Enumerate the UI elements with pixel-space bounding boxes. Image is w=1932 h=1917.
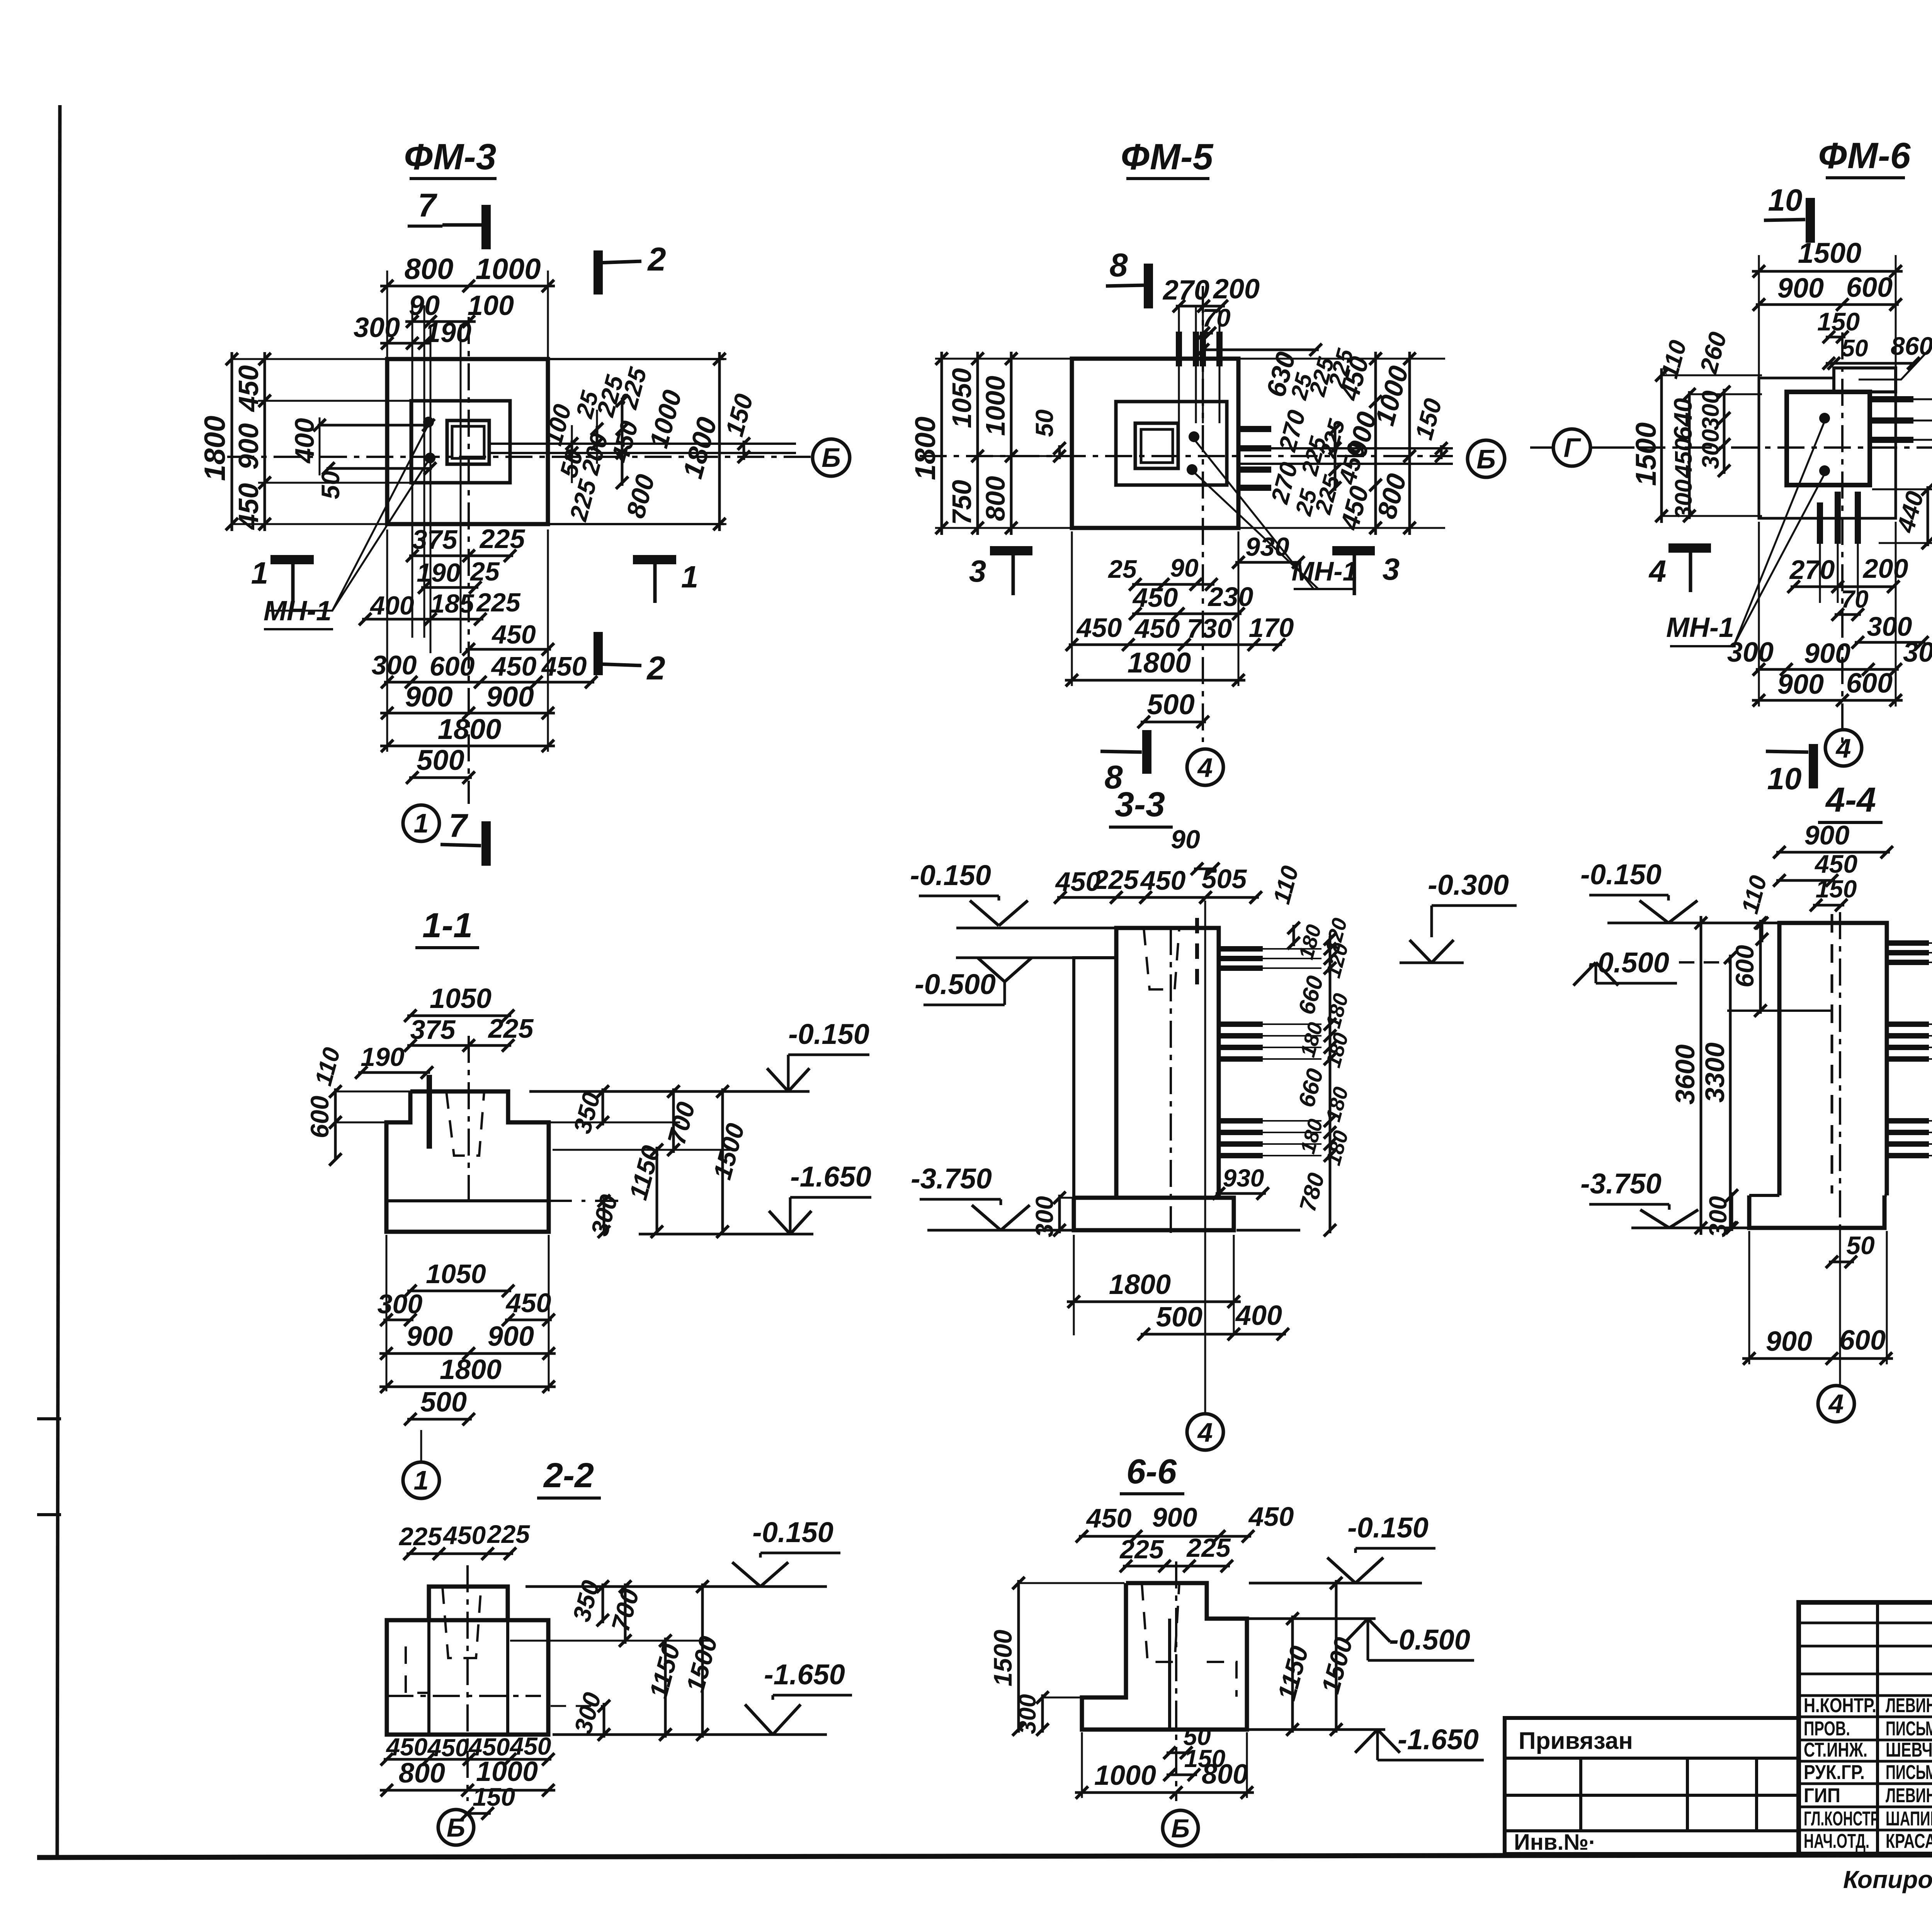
svg-text:225: 225	[1093, 865, 1139, 895]
svg-text:300: 300	[372, 650, 417, 680]
svg-text:РУК.ГР.: РУК.ГР.	[1804, 1761, 1865, 1784]
svg-text:1500: 1500	[1630, 422, 1662, 486]
section mark 3 right of FM-5	[1332, 546, 1375, 555]
svg-text:4: 4	[1648, 554, 1667, 588]
FM-5 outer footing square	[1072, 359, 1238, 528]
svg-text:300: 300	[1727, 637, 1774, 668]
svg-text:6-6: 6-6	[1126, 1452, 1177, 1491]
svg-text:1: 1	[251, 556, 269, 590]
svg-text:225: 225	[479, 524, 526, 554]
svg-text:Привязан: Привязан	[1519, 1728, 1633, 1754]
svg-text:3300: 3300	[1700, 1042, 1730, 1103]
svg-text:225: 225	[1119, 1535, 1164, 1564]
svg-text:-3.750: -3.750	[911, 1163, 992, 1195]
svg-text:900: 900	[233, 423, 264, 470]
section 2-2 pedestal profile	[429, 1587, 508, 1620]
FM-6 anchor dots	[1819, 413, 1830, 424]
svg-text:СТ.ИНЖ.: СТ.ИНЖ.	[1804, 1739, 1867, 1761]
svg-text:3: 3	[1383, 552, 1400, 586]
FM-5 anchor rebar lines top	[1178, 307, 1180, 423]
svg-text:1050: 1050	[947, 368, 977, 428]
section 3-3 footing	[1074, 1198, 1234, 1230]
svg-text:ФМ-3: ФМ-3	[404, 136, 497, 177]
svg-text:225: 225	[488, 1013, 534, 1044]
frame fold tick left lower	[37, 1513, 61, 1516]
section 1-1 anchor dashed lines	[446, 1091, 484, 1156]
main title block outer	[1799, 1602, 1932, 1854]
svg-text:1: 1	[414, 1465, 429, 1495]
svg-text:600: 600	[1839, 1325, 1886, 1356]
svg-text:400: 400	[369, 591, 414, 620]
svg-text:190: 190	[417, 558, 461, 587]
section 3-3 rebar hook groups right	[1219, 946, 1263, 952]
leader MN-1 of FM-6	[1734, 421, 1825, 645]
FM-6 foundation body bold square	[1787, 392, 1870, 485]
axis circle 4 below FM-6	[1825, 730, 1862, 766]
sheet frame bottom border line	[37, 1854, 1932, 1857]
svg-text:4: 4	[1197, 1417, 1213, 1447]
FM-3 right top extension lines	[548, 358, 724, 360]
svg-text:ФМ-6: ФМ-6	[1818, 135, 1911, 176]
svg-text:-0.150: -0.150	[910, 859, 991, 891]
FM-5 horizontal axis centerline	[920, 455, 1453, 457]
section 6-6 centerline	[1175, 1561, 1177, 1801]
svg-text:ГИП: ГИП	[1804, 1784, 1840, 1807]
section mark 1 lower-right of FM-3	[633, 555, 676, 564]
svg-text:800: 800	[405, 253, 454, 286]
svg-text:300: 300	[1903, 637, 1932, 668]
svg-text:Б: Б	[1171, 1814, 1190, 1843]
FM-3 footing step rectangle	[411, 401, 510, 483]
svg-text:230: 230	[1207, 582, 1253, 612]
svg-text:1-1: 1-1	[422, 906, 473, 945]
FM-3 foundation beam edge lines to right	[489, 443, 796, 445]
svg-text:3: 3	[969, 554, 986, 588]
section 3-3 right dim chain small 180s 660s	[1329, 936, 1332, 1233]
section mark 2 lower right of FM-3	[594, 632, 603, 675]
section 2-2 dashdot horizontal	[386, 1695, 541, 1697]
svg-text:4: 4	[1835, 733, 1851, 763]
svg-text:МН-1: МН-1	[1666, 612, 1734, 643]
svg-text:450: 450	[442, 1521, 486, 1549]
axis circle 4 below FM-5	[1187, 749, 1223, 785]
axis circle 4 below 4-4	[1818, 1386, 1854, 1422]
svg-text:4: 4	[1828, 1389, 1844, 1419]
svg-text:900: 900	[1804, 638, 1850, 669]
svg-text:500: 500	[420, 1387, 467, 1418]
section 1-1 level line -0.150 extension	[529, 1090, 810, 1093]
FM-5 footing step rectangle	[1116, 402, 1227, 485]
svg-text:-0.150: -0.150	[1580, 858, 1662, 890]
svg-text:2-2: 2-2	[543, 1456, 594, 1495]
svg-text:1800: 1800	[1128, 647, 1191, 679]
svg-text:25: 25	[1107, 555, 1137, 583]
privyazan block rows	[1505, 1757, 1799, 1760]
section 1-1 slab dashdot right	[549, 1200, 626, 1202]
svg-text:270: 270	[1789, 555, 1835, 585]
svg-text:1800: 1800	[199, 415, 231, 481]
FM-3 anchor bolt dots	[423, 417, 434, 427]
svg-text:50: 50	[316, 471, 345, 499]
svg-text:900: 900	[486, 681, 534, 713]
FM-3 horizontal axis centerline B	[227, 456, 811, 458]
svg-text:150: 150	[473, 1783, 515, 1811]
FM-5 column inner line	[1141, 429, 1173, 463]
svg-text:450: 450	[1248, 1502, 1294, 1532]
svg-text:400: 400	[289, 418, 320, 464]
section 3-3 axis line to circle 4	[1204, 901, 1206, 1415]
FM-6 rebar hooks right	[1870, 396, 1913, 402]
svg-text:-0.500: -0.500	[1389, 1624, 1470, 1656]
svg-text:1: 1	[681, 560, 699, 594]
svg-text:200: 200	[1862, 553, 1908, 584]
svg-text:МН-1: МН-1	[264, 596, 332, 627]
FM-5 foundation beam edges right	[1238, 447, 1453, 449]
svg-text:450: 450	[386, 1733, 428, 1761]
svg-text:600: 600	[1846, 668, 1893, 699]
svg-text:1500: 1500	[1798, 237, 1862, 269]
svg-text:-1.650: -1.650	[1398, 1723, 1479, 1755]
svg-text:900: 900	[406, 1321, 453, 1352]
FM-3 vertical centerline	[468, 317, 470, 804]
FM-3 column outline	[447, 421, 489, 464]
svg-text:300: 300	[1670, 479, 1697, 519]
svg-text:50: 50	[1846, 1231, 1875, 1260]
svg-text:800: 800	[399, 1758, 445, 1789]
section 2-2 anchor dashed	[442, 1587, 481, 1658]
FM-3 outer footing square 1800x1800	[387, 359, 548, 524]
privyazan block outer	[1505, 1718, 1799, 1854]
svg-text:900: 900	[1152, 1502, 1197, 1532]
svg-text:225: 225	[398, 1522, 442, 1551]
section 4-4 centerline	[1839, 912, 1841, 1229]
axis circle 1 below FM-3	[403, 805, 439, 841]
svg-text:-3.750: -3.750	[1580, 1168, 1662, 1200]
svg-text:450: 450	[1086, 1503, 1132, 1533]
svg-text:900: 900	[405, 681, 452, 713]
section 4-4 wall profile	[1779, 923, 1887, 1195]
FM-3 column inner line	[452, 426, 484, 458]
svg-text:Н.КОНТР.: Н.КОНТР.	[1804, 1694, 1876, 1717]
section 3-3 anchor dashed	[1144, 928, 1179, 989]
svg-text:7: 7	[418, 187, 437, 224]
section 1-1 anchor bolt	[427, 1075, 432, 1149]
svg-text:505: 505	[1202, 864, 1247, 894]
svg-text:1800: 1800	[438, 713, 502, 745]
svg-text:50: 50	[1031, 409, 1058, 437]
section 3-3 vertical centerline	[1170, 928, 1172, 1233]
svg-text:-1.650: -1.650	[790, 1161, 871, 1193]
svg-text:ФМ-5: ФМ-5	[1121, 136, 1214, 177]
svg-text:1500: 1500	[988, 1629, 1017, 1686]
svg-text:450: 450	[1814, 850, 1857, 878]
svg-text:ЛЕВИНА: ЛЕВИНА	[1886, 1694, 1932, 1717]
svg-text:Г: Г	[1564, 432, 1582, 463]
section 4-4 anchor dashed vertical	[1831, 914, 1833, 1193]
axis circle B below 2-2	[438, 1810, 474, 1845]
svg-text:225: 225	[476, 588, 521, 617]
section 3-3 left ledge	[1074, 958, 1116, 1198]
FM-3 anchor bolt vertical lines	[412, 305, 413, 638]
svg-text:-0.500: -0.500	[915, 968, 996, 1000]
sheet frame left border line	[57, 105, 60, 1855]
svg-text:ШЕВЧЕНКО: ШЕВЧЕНКО	[1886, 1739, 1932, 1761]
svg-text:1000: 1000	[475, 253, 541, 286]
svg-text:500: 500	[1147, 688, 1194, 720]
svg-text:450: 450	[1670, 438, 1697, 478]
svg-text:-1.650: -1.650	[764, 1658, 845, 1691]
FM-6 vertical centerline	[1841, 332, 1844, 746]
section mark 1 lower-left of FM-3	[270, 555, 314, 564]
svg-text:-0.500: -0.500	[1588, 947, 1669, 979]
svg-text:500: 500	[1156, 1302, 1202, 1333]
FM-6 horizontal axis centerline	[1592, 446, 1932, 449]
FM-5 vertical axis centerline	[1202, 286, 1204, 742]
section 1-1 vertical centerline	[468, 1036, 470, 1206]
svg-text:Б: Б	[447, 1813, 465, 1842]
FM-5 rebar hooks right	[1238, 426, 1271, 432]
FM-5 column outline	[1135, 423, 1178, 468]
svg-text:1000: 1000	[980, 376, 1010, 436]
svg-text:ПРОВ.: ПРОВ.	[1804, 1718, 1850, 1740]
svg-text:640: 640	[1668, 398, 1697, 441]
svg-text:600: 600	[1730, 945, 1759, 987]
svg-text:-0.150: -0.150	[788, 1018, 869, 1050]
section 4-4 rebar hooks	[1887, 940, 1929, 946]
section 4-4 footing	[1749, 1195, 1884, 1228]
svg-text:90: 90	[1171, 825, 1200, 854]
svg-text:300: 300	[1014, 1694, 1041, 1734]
svg-text:1800: 1800	[909, 417, 941, 480]
section 3-3 wall profile	[1116, 928, 1219, 1198]
svg-text:200: 200	[1213, 274, 1260, 305]
svg-text:1000: 1000	[1094, 1760, 1156, 1791]
svg-text:860: 860	[1891, 332, 1932, 360]
section 1-1 slab top line	[386, 1199, 549, 1202]
svg-text:1: 1	[414, 808, 429, 838]
signature table columns	[1876, 1602, 1879, 1854]
svg-text:225: 225	[486, 1520, 530, 1548]
svg-text:450: 450	[491, 620, 536, 649]
section 6-6 inner vertical line	[1168, 1619, 1171, 1730]
leader line MN-1 of FM-5	[1194, 439, 1314, 589]
svg-text:900: 900	[488, 1321, 534, 1352]
svg-text:4-4: 4-4	[1825, 781, 1876, 819]
section mark 4 left of FM-6	[1668, 543, 1711, 553]
svg-text:10: 10	[1768, 183, 1803, 217]
section 6-6 profile	[1082, 1583, 1247, 1730]
leader line MN-1 of FM-3	[268, 424, 429, 611]
svg-text:50: 50	[1842, 335, 1868, 362]
svg-text:ГЛ.КОНСТР: ГЛ.КОНСТР	[1804, 1808, 1879, 1830]
axis circle B right of FM-3	[813, 439, 850, 476]
svg-text:4: 4	[1197, 752, 1213, 783]
svg-text:170: 170	[1249, 613, 1294, 643]
svg-text:2: 2	[646, 650, 665, 687]
svg-text:800: 800	[1202, 1759, 1248, 1790]
svg-text:7: 7	[449, 807, 468, 844]
section mark 2 upper right of FM-3	[594, 250, 603, 295]
axis circle G far right of FM-5	[1553, 429, 1590, 466]
svg-text:Б: Б	[1476, 444, 1496, 474]
svg-text:190: 190	[425, 317, 471, 348]
svg-text:450: 450	[1076, 613, 1122, 643]
section 1-1 profile outline	[386, 1091, 549, 1232]
svg-text:900: 900	[1766, 1326, 1812, 1357]
svg-text:930: 930	[1223, 1164, 1264, 1192]
svg-text:КРАСАВИН: КРАСАВИН	[1886, 1830, 1932, 1852]
svg-text:900: 900	[1777, 273, 1824, 304]
svg-text:ШАПИРО: ШАПИРО	[1886, 1808, 1932, 1830]
frame fold tick left upper	[37, 1417, 61, 1420]
svg-text:1800: 1800	[440, 1354, 502, 1385]
svg-text:150: 150	[1817, 307, 1860, 336]
svg-text:450: 450	[491, 651, 537, 681]
svg-text:450: 450	[1134, 613, 1180, 644]
svg-text:НАЧ.ОТД.: НАЧ.ОТД.	[1804, 1830, 1869, 1852]
svg-text:10: 10	[1767, 761, 1802, 796]
svg-text:ЛЕВИНА: ЛЕВИНА	[1886, 1784, 1932, 1807]
svg-text:-0.300: -0.300	[1428, 869, 1509, 901]
svg-text:750: 750	[947, 480, 977, 525]
axis circle 4 below 3-3	[1187, 1414, 1223, 1450]
signature table rows	[1799, 1622, 1932, 1624]
svg-text:600: 600	[1846, 272, 1893, 303]
svg-text:600: 600	[305, 1096, 334, 1138]
section mark 3 left of FM-5	[990, 546, 1032, 555]
svg-text:2: 2	[647, 241, 666, 278]
svg-text:Копировал Корейкая: Копировал Корейкая	[1843, 1866, 1932, 1893]
FM-6 pit outline square	[1759, 378, 1896, 518]
FM-6 concrete post at top	[1834, 368, 1896, 392]
svg-text:1050: 1050	[430, 983, 492, 1014]
svg-text:1800: 1800	[1109, 1269, 1171, 1300]
svg-text:90: 90	[1170, 553, 1199, 582]
svg-text:730: 730	[1187, 613, 1232, 644]
svg-text:600: 600	[430, 651, 475, 681]
axis circle B right of FM-5	[1468, 440, 1505, 477]
FM-6 rebar hooks bottom	[1817, 502, 1823, 544]
FM-5 anchor bolt dots	[1189, 431, 1199, 442]
svg-text:-0.150: -0.150	[1347, 1512, 1429, 1544]
svg-text:225: 225	[1186, 1533, 1231, 1563]
svg-text:3-3: 3-3	[1115, 785, 1165, 824]
svg-text:-0.150: -0.150	[752, 1516, 833, 1548]
section 2-2 footing profile	[387, 1620, 548, 1735]
svg-text:Б: Б	[821, 443, 841, 473]
svg-text:450: 450	[1140, 865, 1186, 896]
svg-text:Инв.№·: Инв.№·	[1514, 1830, 1596, 1855]
svg-text:ПИСЬМАН: ПИСЬМАН	[1886, 1718, 1932, 1740]
section 2-2 centerline vertical	[466, 1565, 469, 1801]
privyazan block column dividers	[1579, 1758, 1582, 1831]
svg-text:25: 25	[469, 557, 500, 586]
svg-text:ПИСЬМАН: ПИСЬМАН	[1886, 1761, 1932, 1784]
svg-text:900: 900	[1777, 669, 1824, 700]
section 6-6 anchor dashed	[1142, 1583, 1179, 1662]
svg-text:1050: 1050	[426, 1259, 486, 1289]
svg-text:500: 500	[417, 744, 464, 776]
axis circle 1 below section 1-1	[403, 1462, 439, 1498]
svg-text:450: 450	[505, 1288, 551, 1318]
svg-text:8: 8	[1109, 247, 1128, 284]
svg-text:3600: 3600	[1670, 1044, 1700, 1105]
axis circle B below 6-6	[1163, 1810, 1198, 1846]
svg-text:400: 400	[1235, 1300, 1282, 1331]
svg-text:900: 900	[1804, 820, 1850, 850]
svg-text:930: 930	[1245, 532, 1289, 562]
svg-text:800: 800	[980, 476, 1010, 521]
